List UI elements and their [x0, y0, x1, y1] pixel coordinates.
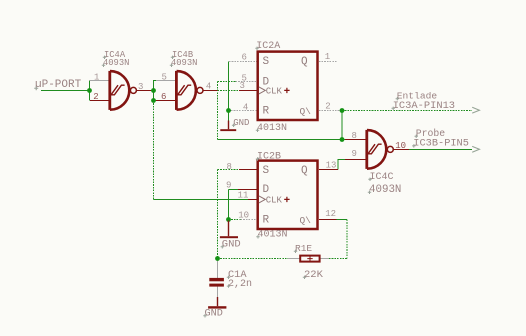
- nand gate IC4A: [110, 71, 137, 110]
- svg-text:D: D: [263, 184, 270, 196]
- svg-text:22K: 22K: [304, 269, 324, 281]
- wire IC2A R junction to GND1: [228, 111, 230, 121]
- node IC2B R/GND junction: [226, 217, 231, 222]
- svg-text:R: R: [263, 106, 270, 118]
- pin IC2A R 4: [231, 110, 257, 112]
- svg-text:Q: Q: [301, 165, 308, 177]
- svg-text:S: S: [263, 165, 270, 177]
- svg-text:µP-PORT: µP-PORT: [35, 79, 82, 91]
- wire IC2B S pin8: [218, 169, 240, 171]
- capacitor C1A: [209, 278, 224, 287]
- pin IC2B S 8: [239, 169, 257, 171]
- wire IC4C pin8 stub green: [342, 139, 345, 141]
- svg-text:2: 2: [325, 101, 330, 111]
- pin IC2B R 10: [241, 219, 257, 221]
- text origin crosses: [34, 47, 418, 318]
- svg-text:2,2n: 2,2n: [228, 279, 252, 290]
- svg-text:IC3A-PIN13: IC3A-PIN13: [393, 100, 455, 112]
- svg-text:Q\: Q\: [300, 106, 312, 117]
- svg-text:6: 6: [242, 53, 247, 63]
- wire IC2B D pin9: [229, 189, 239, 191]
- svg-text:1: 1: [325, 52, 330, 62]
- svg-text:IC4C: IC4C: [370, 172, 394, 183]
- svg-text:3: 3: [240, 81, 245, 91]
- wire vertical Q12 down to R1E: [346, 220, 348, 259]
- wire junction A down to IC4A pin2: [89, 91, 91, 101]
- wire IC2A R junction green stub: [229, 110, 232, 112]
- flip-flop IC2B box: [258, 161, 318, 229]
- pin stubs gray: [90, 62, 343, 298]
- pin IC4A 3 output: [137, 90, 151, 92]
- nand gate IC4C: [367, 130, 394, 169]
- svg-text:1: 1: [94, 72, 99, 82]
- origin cross IC2B: [284, 197, 289, 202]
- svg-text:3: 3: [138, 82, 143, 92]
- pin IC2A Q\ 2: [319, 110, 342, 112]
- node A junction: [87, 88, 92, 93]
- svg-text:4: 4: [243, 103, 248, 113]
- pin IC2B Q 13: [319, 169, 338, 171]
- svg-text:IC2A: IC2A: [256, 41, 280, 52]
- svg-text:4093N: 4093N: [171, 58, 197, 68]
- svg-text:Q\: Q\: [300, 215, 312, 226]
- wire uP-PORT to junction A: [41, 90, 90, 92]
- ground GND3 (C1A): [208, 297, 226, 309]
- wire net N1 horizontal to IC4C pin8 node: [218, 139, 343, 141]
- wire IC4C out Probe net: [409, 149, 472, 151]
- wire net N1 vertical IC2A D down: [217, 82, 219, 140]
- flip-flop port letters: [263, 56, 312, 227]
- pin IC4B 6: [156, 100, 175, 102]
- wire node B down to IC4B pin6: [154, 91, 157, 101]
- svg-text:11: 11: [238, 190, 249, 200]
- pin IC4C 10 output: [394, 149, 410, 151]
- clock wedge IC2B: [259, 196, 265, 203]
- clock wedge IC2A: [259, 87, 265, 94]
- svg-text:GND: GND: [205, 309, 223, 320]
- wires (nets): [41, 62, 472, 259]
- svg-text:GND: GND: [222, 239, 241, 251]
- svg-text:4093N: 4093N: [369, 184, 401, 196]
- svg-text:4093N: 4093N: [103, 58, 129, 68]
- wire junction A up to IC4A pin1: [89, 81, 91, 91]
- pin C1A top: [217, 260, 219, 279]
- arrow Probe: [472, 146, 479, 152]
- flip-flop IC2A box: [258, 52, 318, 120]
- origin cross IC2A: [284, 88, 289, 93]
- node B junction upper: [151, 88, 156, 93]
- pin IC4B 5: [156, 80, 175, 82]
- wire IC2B Q pin13 corner to IC4C pin9: [338, 160, 345, 170]
- svg-text:CLK: CLK: [266, 87, 283, 97]
- svg-text:8: 8: [227, 162, 232, 172]
- svg-text:2: 2: [93, 92, 98, 102]
- svg-text:4013N: 4013N: [257, 123, 287, 134]
- svg-text:R: R: [263, 215, 270, 227]
- pin R1E right lead: [321, 258, 330, 260]
- wire node B long vertical to IC2B CLK: [153, 101, 155, 200]
- wire node B up to IC4B pin5: [154, 81, 157, 91]
- pin IC4A 2: [90, 100, 109, 102]
- svg-text:IC2B: IC2B: [257, 152, 281, 163]
- pin IC2A S 6: [229, 61, 257, 63]
- svg-text:S: S: [263, 56, 270, 68]
- pin IC4A 1: [90, 80, 109, 82]
- pin IC4C 9: [345, 159, 366, 161]
- pin stubs dark red: [90, 91, 409, 220]
- svg-text:4: 4: [206, 82, 211, 92]
- ground GND1 (IC2A): [220, 121, 236, 132]
- wire IC4B out to IC2A CLK: [218, 90, 240, 92]
- node Entlade junction: [340, 108, 345, 113]
- wire IC4A out to node B: [151, 90, 154, 92]
- svg-text:10: 10: [238, 210, 249, 220]
- pin IC2B Q\ 12: [319, 219, 337, 221]
- wire node C vertical up to Entlade net: [341, 111, 343, 140]
- svg-text:9: 9: [226, 180, 231, 190]
- svg-text:9: 9: [352, 149, 357, 159]
- node B junction lower: [151, 98, 156, 103]
- wire IC2B R pin10 stub: [229, 219, 241, 221]
- pin IC2B D 9: [238, 189, 257, 191]
- wire R1E right lead: [329, 258, 347, 260]
- pin IC2A D 5: [236, 81, 257, 83]
- wire Entlade net: [342, 110, 472, 112]
- resistor R1E: [300, 256, 319, 262]
- pin IC2A CLK 3: [239, 90, 257, 92]
- svg-text:12: 12: [325, 209, 336, 219]
- svg-text:GND: GND: [233, 118, 249, 128]
- svg-text:IC3B-PIN5: IC3B-PIN5: [413, 138, 469, 150]
- pin IC2A Q 1 unconnected: [319, 61, 338, 63]
- svg-text:6: 6: [161, 92, 166, 102]
- pin R1E left lead: [288, 258, 300, 260]
- arrow Entlade: [472, 107, 479, 113]
- svg-text:Q: Q: [301, 56, 308, 68]
- ground GND2 (IC2B): [220, 221, 238, 239]
- svg-text:13: 13: [326, 160, 337, 170]
- wire IC2B D vertical down to R node: [228, 190, 230, 220]
- wire corner to IC2B CLK pin11: [154, 199, 249, 201]
- pin IC2B CLK 11: [248, 199, 257, 201]
- svg-text:R1E: R1E: [295, 243, 312, 254]
- svg-text:CLK: CLK: [266, 196, 283, 206]
- wire C1A junction to R1E left: [218, 258, 289, 260]
- wire IC2A D pin5 to vertical: [218, 81, 236, 83]
- node IC4C pin8 junction: [340, 137, 345, 142]
- text labels (names and values): [35, 41, 469, 320]
- svg-text:10: 10: [395, 141, 406, 151]
- node IC2A R/GND junction: [226, 108, 231, 113]
- wire IC2B Q12 to R1E right: [337, 219, 348, 221]
- wire IC2A S pin6 corner: [228, 62, 230, 111]
- wire net N2 vertical to C1A junction: [217, 170, 219, 259]
- nand gate IC4B: [176, 71, 203, 110]
- pin C1A bottom: [217, 287, 219, 297]
- pin IC4B 4 output: [203, 90, 217, 92]
- svg-text:4013N: 4013N: [258, 230, 288, 241]
- svg-text:5: 5: [162, 72, 167, 82]
- pin IC4C 8: [345, 139, 366, 141]
- node C1A junction: [215, 256, 220, 261]
- svg-text:8: 8: [352, 131, 357, 141]
